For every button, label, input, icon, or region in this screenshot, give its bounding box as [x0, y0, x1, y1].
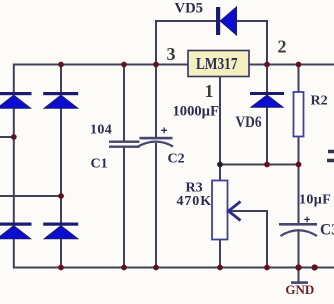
node top rail junction at C1 [121, 62, 127, 68]
op-amp U1 LM317 regulator box [188, 51, 249, 77]
diode VD6 [250, 65, 284, 166]
node bottom rail output junction [312, 264, 318, 270]
svg-text:2: 2 [278, 36, 287, 56]
capacitor C1 [109, 64, 140, 269]
node AC input junction column B [58, 193, 64, 199]
node top rail junction at bridge column B [58, 62, 64, 68]
node adjust junction at pin1 [217, 162, 223, 168]
arrowhead R3 wiper [229, 202, 241, 221]
wire AC input stub upper [0, 136, 14, 138]
diode D1 bridge top-left [0, 92, 32, 108]
svg-text:10µF: 10µF [299, 193, 331, 208]
svg-text:470K: 470K [177, 194, 213, 209]
diode D2 bridge top-right [43, 92, 78, 108]
svg-text:C3: C3 [320, 222, 334, 239]
node pin2 rail junction at R2 [296, 62, 302, 68]
wire top rail from bridge to LM317 pin 3 [14, 64, 188, 66]
capacitor C2 electrolytic [138, 65, 173, 269]
wire bridge column B vertical [60, 65, 62, 268]
wire bridge column A vertical [13, 64, 15, 269]
wire pin 2 rail from LM317 to right edge [249, 64, 334, 66]
node bottom rail junction at R3 [217, 265, 223, 271]
diode VD5 [216, 7, 237, 35]
node adjust junction at VD6 [264, 162, 270, 168]
wire VD5 branch [156, 21, 267, 65]
svg-text:1: 1 [205, 81, 214, 101]
svg-text:C1: C1 [91, 157, 108, 172]
node bottom rail junction at C1 [121, 265, 127, 271]
node bottom rail junction at C2 [153, 265, 159, 271]
svg-text:VD6: VD6 [236, 114, 262, 131]
cut-off label at right edge [327, 152, 334, 161]
node bottom rail junction at C3/GND [295, 264, 301, 270]
wire bottom ground rail [14, 267, 334, 269]
node bottom rail junction at wiper [264, 265, 270, 271]
svg-text:VD5: VD5 [175, 1, 204, 17]
svg-text:C2: C2 [168, 152, 185, 167]
node AC input junction column A [11, 134, 17, 140]
potentiometer R3 [212, 181, 228, 269]
wire LM317 pin 1 down to R3 [219, 77, 221, 181]
svg-text:LM317: LM317 [196, 54, 238, 73]
node bottom rail junction at column B [58, 265, 64, 271]
capacitor C3 electrolytic [279, 165, 317, 269]
node top rail junction at C2 / VD5 [153, 62, 159, 68]
svg-text:R2: R2 [311, 94, 328, 109]
ground symbol GND [285, 268, 314, 298]
wire AC input stub lower [0, 195, 61, 197]
node pin2 rail junction at VD5 return / VD6 [264, 62, 270, 68]
svg-text:GND: GND [285, 282, 314, 297]
resistor R2 [294, 65, 304, 166]
svg-text:104: 104 [90, 123, 112, 138]
diode D4 bridge bottom-right [43, 223, 78, 239]
diode D3 bridge bottom-left [0, 223, 32, 239]
node adjust junction at R2/C3 [296, 162, 302, 168]
wire adjust node horizontal [220, 164, 299, 166]
wire R3 wiper arm [229, 211, 268, 268]
svg-text:1000µF: 1000µF [173, 104, 220, 120]
svg-text:3: 3 [167, 44, 176, 64]
